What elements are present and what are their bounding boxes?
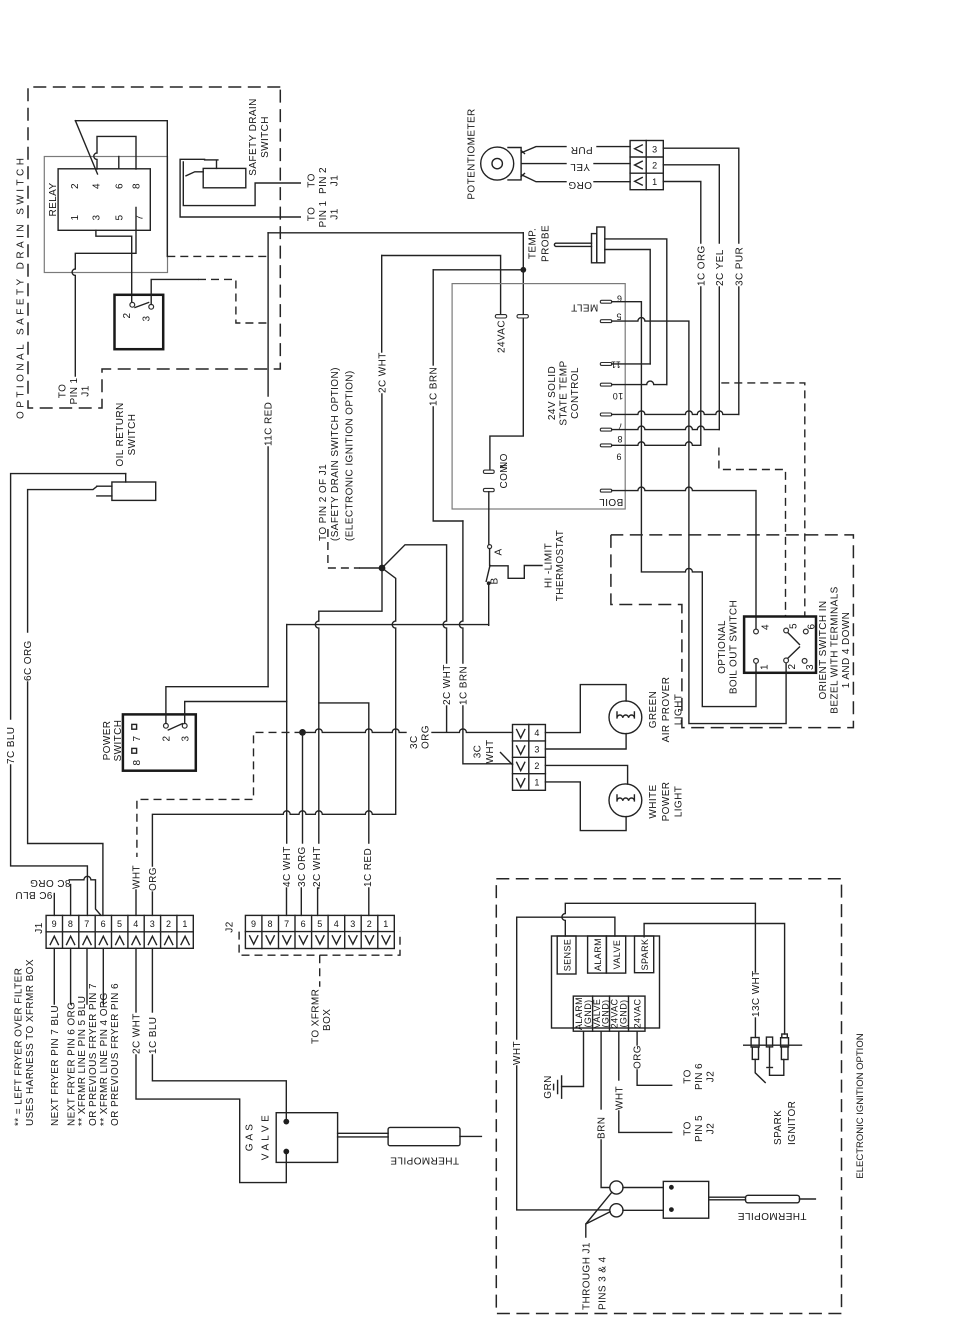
svg-text:6: 6 <box>101 919 106 929</box>
wire 7C BLU <box>11 474 126 719</box>
svg-text:4: 4 <box>534 728 539 738</box>
svg-text:SWITCH: SWITCH <box>127 414 138 456</box>
svg-text:10: 10 <box>612 391 623 401</box>
svg-text:SWITCH: SWITCH <box>260 116 271 158</box>
wire ignitor bottom link <box>770 1060 784 1076</box>
wire pin8 row to 2C YEL <box>612 426 720 429</box>
svg-text:1: 1 <box>70 214 81 220</box>
wire 3C PUR <box>663 148 739 243</box>
svg-text:SWITCH: SWITCH <box>113 720 124 762</box>
gas valve terminal lower <box>283 1149 289 1155</box>
svg-text:SPARK: SPARK <box>773 1110 784 1145</box>
svg-text:1: 1 <box>182 919 187 929</box>
wire J1 pin9 stub <box>53 894 55 916</box>
svg-text:WHT: WHT <box>614 1086 625 1110</box>
wire power switch pin2 to 11C RED <box>166 687 268 724</box>
wire 4C WHT vertical <box>286 625 288 843</box>
svg-text:4: 4 <box>92 183 103 189</box>
wire main bus to hi-limit B <box>287 624 489 626</box>
svg-text:TEMP.: TEMP. <box>527 228 538 259</box>
boil-out pin 3 <box>802 659 807 664</box>
svg-text:COM: COM <box>499 464 510 489</box>
svg-text:3C ORG: 3C ORG <box>297 846 308 887</box>
svg-text:3C PUR: 3C PUR <box>734 247 745 286</box>
svg-text:PIN 1: PIN 1 <box>318 200 329 227</box>
svg-text:ORG: ORG <box>633 1045 644 1069</box>
white power lamp <box>609 784 642 817</box>
svg-text:PINS 3 & 4: PINS 3 & 4 <box>598 1256 609 1310</box>
boil-out switch box <box>744 617 816 673</box>
svg-text:2C WHT: 2C WHT <box>377 352 388 393</box>
svg-text:8: 8 <box>132 759 143 765</box>
svg-text:8: 8 <box>267 919 272 929</box>
power switch terminal 2 <box>164 723 169 728</box>
svg-text:3: 3 <box>805 664 816 670</box>
wire SPARK to ignitor <box>644 924 785 1035</box>
wire dashed TO PIN 2 OF J1 <box>328 529 360 568</box>
temp control pin 8 <box>600 428 612 431</box>
svg-text:OPTIONAL SAFETY DRAIN SWITCH: OPTIONAL SAFETY DRAIN SWITCH <box>16 155 27 419</box>
safety drain switch body <box>203 168 246 187</box>
wire pin10 row <box>612 381 667 385</box>
wire BOIL row to boil-out pin4 <box>612 487 756 629</box>
svg-text:WHT: WHT <box>485 740 496 764</box>
svg-text:9: 9 <box>251 919 256 929</box>
wire light pin4 to green lamp <box>545 685 626 733</box>
wire junction upper branch to light connector pin4 <box>382 545 447 663</box>
svg-text:LIGHT: LIGHT <box>674 786 685 817</box>
boil-out dashed enclosure <box>611 535 854 728</box>
svg-text:(SAFETY DRAIN SWITCH OPTION): (SAFETY DRAIN SWITCH OPTION) <box>330 367 341 541</box>
svg-text:8: 8 <box>68 919 73 929</box>
oil return switch body <box>112 482 156 500</box>
svg-text:3: 3 <box>180 735 191 741</box>
wire 1C BRN vertical <box>432 270 434 365</box>
svg-text:(GND): (GND) <box>619 1000 629 1028</box>
gas valve terminal upper <box>283 1119 289 1125</box>
svg-text:TO PIN 2 OF J1: TO PIN 2 OF J1 <box>318 464 329 541</box>
svg-text:THERMOSTAT: THERMOSTAT <box>555 530 566 601</box>
svg-text:2C WHT: 2C WHT <box>132 1013 143 1054</box>
optional safety drain switch dashed enclosure <box>28 87 280 408</box>
svg-text:2: 2 <box>787 663 798 669</box>
svg-text:7: 7 <box>84 919 89 929</box>
wire pot YEL <box>522 163 566 165</box>
aux switch arm <box>135 303 149 308</box>
wire pot PUR <box>522 147 566 153</box>
svg-text:BRN: BRN <box>597 1117 608 1139</box>
wire 24VAC (ORG) to TO PIN 6 J2 <box>636 1031 638 1045</box>
wire light pin3 to green lamp <box>545 734 626 749</box>
svg-text:WHT: WHT <box>132 865 143 889</box>
svg-text:RELAY: RELAY <box>48 182 59 216</box>
wire pin5 to boil-out pin2 <box>612 318 786 724</box>
wire J1 pin3 to gas valve (1C BLU) <box>151 948 153 1012</box>
thermopile 2 tip <box>800 1198 816 1200</box>
terminal 24VAC left <box>495 315 506 318</box>
svg-text:2: 2 <box>70 183 81 189</box>
wire light pin1 to white lamp <box>545 782 626 831</box>
wire pin7 row to 3C PUR <box>612 411 739 415</box>
svg-text:5: 5 <box>789 623 800 629</box>
svg-text:USES HARNESS TO XFRMR BOX: USES HARNESS TO XFRMR BOX <box>25 959 36 1126</box>
connector J2 body <box>245 915 394 948</box>
module lower terminal strip <box>573 996 645 1031</box>
wire 1C ORG <box>663 182 701 244</box>
boil-out pin 2 <box>784 658 789 663</box>
wire dashed to XFRMR box <box>319 955 321 987</box>
svg-text:PROBE: PROBE <box>541 225 552 262</box>
svg-text:PIN 6: PIN 6 <box>694 1063 705 1090</box>
svg-text:NEXT FRYER PIN 7 BLU: NEXT FRYER PIN 7 BLU <box>50 1005 61 1126</box>
svg-text:2: 2 <box>122 312 133 318</box>
svg-text:THERMOPILE: THERMOPILE <box>737 1210 806 1221</box>
svg-text:ORG: ORG <box>421 725 432 749</box>
svg-text:5: 5 <box>616 312 621 322</box>
wire B to bus <box>488 585 490 625</box>
svg-text:2C YEL: 2C YEL <box>715 249 726 286</box>
svg-text:6: 6 <box>114 183 125 189</box>
svg-text:J2: J2 <box>706 1123 717 1134</box>
wire J1 pin8 stub <box>70 885 72 916</box>
wire relay pin7 lead <box>72 208 136 377</box>
wire 11C RED vertical <box>267 233 269 396</box>
svg-text:MELT: MELT <box>571 302 599 313</box>
svg-text:TO: TO <box>683 1121 694 1136</box>
svg-text:3: 3 <box>92 214 103 220</box>
svg-text:LIGHT: LIGHT <box>674 694 685 725</box>
wire 2C YEL <box>663 165 719 243</box>
svg-text:3: 3 <box>534 745 539 755</box>
svg-text:5: 5 <box>317 919 322 929</box>
svg-text:B: B <box>490 577 501 584</box>
gas valve box <box>276 1113 337 1163</box>
wire safety switch to TO PIN 2 <box>183 162 300 206</box>
J2 dashed shroud <box>239 932 400 956</box>
svg-text:TO XFRMR: TO XFRMR <box>311 989 322 1044</box>
svg-text:PIN 2: PIN 2 <box>318 167 329 194</box>
wire 3C ORG junction to light connector pin4 <box>303 729 407 733</box>
temp control pin 7 <box>600 413 612 416</box>
wire ALARM GND to ground <box>562 1031 584 1086</box>
svg-text:1C ORG: 1C ORG <box>696 245 707 286</box>
svg-text:TO: TO <box>307 173 318 188</box>
wire J1 pin4 to gas valve (2C WHT) <box>135 948 137 1012</box>
svg-text:A: A <box>494 548 505 555</box>
svg-text:G A S: G A S <box>245 1124 256 1152</box>
svg-text:7C BLU: 7C BLU <box>6 727 17 764</box>
thermopile junction box <box>663 1181 708 1218</box>
svg-text:3: 3 <box>652 145 657 155</box>
svg-text:J2: J2 <box>706 1071 717 1082</box>
svg-text:GRN: GRN <box>543 1075 554 1098</box>
svg-text:CONTROL: CONTROL <box>570 367 581 419</box>
svg-text:1: 1 <box>383 919 388 929</box>
wire 1C BRN branch <box>433 269 523 271</box>
module terminal VALVE <box>606 936 625 973</box>
wire relay top to dashed corner <box>75 121 167 257</box>
svg-text:SAFETY DRAIN: SAFETY DRAIN <box>248 98 259 175</box>
svg-text:TO: TO <box>58 384 69 399</box>
terminal NO <box>483 470 494 473</box>
module terminal SENSE <box>557 936 576 974</box>
wire 24VAC GND (WHT) to TO PIN 5 J2 <box>618 1031 620 1080</box>
svg-text:6C ORG: 6C ORG <box>23 640 34 681</box>
wire VALVE GND (BRN) to connector circle <box>600 1031 602 1109</box>
wire aux switch pin3 to 11C RED (dashed link) <box>151 279 198 304</box>
electronic ignition option dashed enclosure <box>496 879 841 1314</box>
hi-limit terminal B <box>487 581 491 585</box>
terminal 24VAC right <box>517 315 528 318</box>
spark ignitor center electrode <box>766 1037 772 1047</box>
wire pin9 row to 1C ORG <box>612 442 701 445</box>
light connector body <box>513 725 546 791</box>
svg-text:BOIL OUT SWITCH: BOIL OUT SWITCH <box>729 600 740 694</box>
thermopile tip <box>460 1135 481 1137</box>
wire 6C ORG <box>28 487 97 633</box>
wire relay arm diagonal <box>75 121 97 174</box>
svg-text:2C WHT: 2C WHT <box>312 846 323 887</box>
safety drain switch lever <box>186 172 203 176</box>
aux switch pin 2 terminal <box>130 302 135 307</box>
junction box dots <box>669 1185 674 1190</box>
connector J1 body <box>46 915 193 948</box>
boil-out arms <box>788 633 799 658</box>
wire circles to thermopile box <box>623 1188 663 1211</box>
svg-text:3C: 3C <box>473 745 484 759</box>
svg-text:1: 1 <box>760 664 771 670</box>
svg-text:VALVE: VALVE <box>612 940 622 970</box>
temp control pin 9 <box>600 444 612 447</box>
svg-text:9C BLU: 9C BLU <box>15 889 52 900</box>
svg-text:OPTIONAL: OPTIONAL <box>717 620 728 674</box>
svg-text:OR PREVIOUS FRYER PIN 6: OR PREVIOUS FRYER PIN 6 <box>110 983 121 1126</box>
svg-text:PIN 5: PIN 5 <box>694 1115 705 1142</box>
connector P1 (pot) body <box>630 141 663 190</box>
boil-out pin 4 <box>754 629 759 634</box>
leader spark ignitor <box>755 1060 765 1083</box>
wire 24VAC right drop <box>490 233 523 470</box>
dashed stub to boil-out pin5 <box>719 448 786 617</box>
svg-text:6: 6 <box>807 623 818 629</box>
potentiometer body <box>481 147 514 180</box>
temp probe flange <box>592 234 597 263</box>
svg-text:1: 1 <box>534 777 539 787</box>
svg-text:4: 4 <box>133 919 138 929</box>
svg-text:BEZEL WITH TERMINALS: BEZEL WITH TERMINALS <box>830 586 841 713</box>
module terminal SPARK <box>635 936 654 973</box>
power switch arm <box>168 724 182 730</box>
leader THROUGH J1 PINS 3 and 4 <box>586 1192 612 1237</box>
wire 8C ORG hook over 7C BLU <box>69 876 101 915</box>
svg-text:24VAC: 24VAC <box>497 320 508 353</box>
relay coil outline <box>44 157 167 273</box>
svg-text:J1: J1 <box>81 385 92 396</box>
svg-text:TO: TO <box>307 207 318 222</box>
wire temp probe upper to pin10 <box>605 239 667 385</box>
svg-text:OIL RETURN: OIL RETURN <box>115 402 126 466</box>
J2 arrow contacts <box>250 936 391 944</box>
svg-text:WHITE: WHITE <box>648 784 659 818</box>
wires J1 pins 9-6 to notes <box>54 948 103 1004</box>
svg-text:BOX: BOX <box>322 1009 333 1031</box>
svg-text:BOIL: BOIL <box>599 496 623 507</box>
svg-text:PUR: PUR <box>570 144 592 155</box>
svg-text:POTENTIOMETER: POTENTIOMETER <box>466 108 477 199</box>
svg-text:** = LEFT FRYER OVER FILTER: ** = LEFT FRYER OVER FILTER <box>14 968 25 1126</box>
potentiometer bushing <box>508 148 521 180</box>
svg-text:NEXT FRYER PIN 6 ORG: NEXT FRYER PIN 6 ORG <box>66 1002 77 1126</box>
svg-text:6: 6 <box>301 919 306 929</box>
wire pin11 row <box>612 363 650 365</box>
svg-text:4: 4 <box>761 624 772 630</box>
hi-limit capillary <box>490 566 542 579</box>
wire temp probe lower to pin11 <box>605 250 650 364</box>
svg-text:POWER: POWER <box>661 782 672 822</box>
svg-text:11C RED: 11C RED <box>264 402 275 446</box>
thermopile body <box>388 1127 460 1145</box>
dashed stub to boil-out pin6 <box>721 383 805 617</box>
wire dashed relay drop to 11C RED <box>167 255 268 257</box>
ground symbol GRN <box>554 1076 562 1098</box>
svg-text:2: 2 <box>652 161 657 171</box>
svg-text:2: 2 <box>162 735 173 741</box>
svg-text:J2: J2 <box>225 921 236 932</box>
oil return switch side terminal upper <box>97 485 112 487</box>
wire thermopile 2 leads <box>709 1197 746 1200</box>
boil-out pin 1 <box>754 659 759 664</box>
power switch terminal square 8 <box>132 748 137 753</box>
wire relay pin8 jumper to pin4 <box>94 136 136 169</box>
wire 1C BRN mid to light connector pin2 <box>459 521 463 663</box>
ignition module box <box>552 936 660 1028</box>
svg-text:2: 2 <box>166 919 171 929</box>
svg-text:AIR PROVER: AIR PROVER <box>661 677 672 743</box>
wire relay pin6 to coil top <box>118 157 120 169</box>
oil return switch side terminal lower <box>97 495 112 497</box>
svg-text:** XFRMR LINE PIN 4 ORG: ** XFRMR LINE PIN 4 ORG <box>99 992 110 1126</box>
bulkhead connector circle upper <box>610 1181 623 1194</box>
wire power switch pin3 to 4C WHT <box>185 702 287 724</box>
svg-text:YEL: YEL <box>570 161 590 172</box>
wire SENSE to 13C WHT <box>562 903 756 972</box>
svg-text:1 AND 4 DOWN: 1 AND 4 DOWN <box>841 612 852 688</box>
svg-text:HI -LIMIT: HI -LIMIT <box>544 543 555 588</box>
svg-text:ORIENT SWITCH IN: ORIENT SWITCH IN <box>818 601 829 700</box>
svg-text:3C: 3C <box>409 735 420 749</box>
wire 2C WHT branch from feed <box>382 256 501 316</box>
svg-text:2: 2 <box>367 919 372 929</box>
svg-text:IGNITOR: IGNITOR <box>787 1101 798 1145</box>
svg-text:J1: J1 <box>330 208 341 219</box>
svg-text:7: 7 <box>284 919 289 929</box>
J1 arrow contacts <box>50 936 189 944</box>
svg-text:THROUGH J1: THROUGH J1 <box>582 1242 593 1310</box>
svg-text:GREEN: GREEN <box>648 691 659 729</box>
temp control pin BOIL <box>600 489 612 492</box>
svg-text:1: 1 <box>652 177 657 187</box>
svg-text:ORG: ORG <box>568 179 592 190</box>
svg-text:(ELECTRONIC IGNITION OPTION): (ELECTRONIC IGNITION OPTION) <box>345 370 356 541</box>
svg-text:** XFRMR LINE PIN 5 BLU: ** XFRMR LINE PIN 5 BLU <box>77 996 88 1126</box>
svg-text:THERMOPILE: THERMOPILE <box>390 1155 459 1166</box>
svg-text:1C BRN: 1C BRN <box>429 367 440 406</box>
wire dashed from junction to J1 pin4 (WHT) <box>137 732 303 857</box>
temp control pin 5 <box>600 320 612 323</box>
svg-text:SPARK: SPARK <box>640 939 650 971</box>
svg-text:OR PREVIOUS FRYER PIN 7: OR PREVIOUS FRYER PIN 7 <box>88 983 99 1126</box>
svg-text:8C ORG: 8C ORG <box>30 877 71 888</box>
green air prover lamp <box>609 701 642 734</box>
svg-text:STATE TEMP: STATE TEMP <box>559 360 570 425</box>
node junction 24VAC <box>520 267 526 273</box>
hi-limit terminal A <box>488 545 492 549</box>
aux switch S2 box <box>115 295 164 349</box>
svg-text:ELECTRONIC IGNITION OPTION: ELECTRONIC IGNITION OPTION <box>855 1033 866 1178</box>
svg-text:13C WHT: 13C WHT <box>751 970 762 1017</box>
svg-text:24V SOLID: 24V SOLID <box>547 366 558 420</box>
wire junction lower branch (ORG to J1 pin3) <box>152 568 395 866</box>
boil-out pin 6 <box>803 629 808 634</box>
svg-text:4C WHT: 4C WHT <box>282 846 293 887</box>
svg-text:9: 9 <box>52 919 57 929</box>
temp probe stem <box>554 243 591 246</box>
svg-text:PIN 1: PIN 1 <box>69 377 80 404</box>
wire 2C WHT jog to 1C RED and J2 pin5 <box>315 568 382 843</box>
wire MELT to boil-out pin1 <box>612 302 756 707</box>
svg-text:1C RED: 1C RED <box>363 848 374 887</box>
svg-text:WHT: WHT <box>512 1041 523 1065</box>
bulkhead connector circle lower <box>610 1204 623 1217</box>
wire COM to hi-limit A <box>488 492 490 545</box>
aux switch pin 3 terminal <box>149 304 154 309</box>
hi-limit arm <box>486 549 490 582</box>
spark ignitor mount line <box>744 1044 802 1046</box>
svg-text:ALARM: ALARM <box>593 938 603 971</box>
svg-text:V A L V E: V A L V E <box>261 1115 272 1160</box>
power switch box <box>123 714 196 770</box>
wire top feed 11C RED to 24VAC right terminal <box>268 232 523 234</box>
svg-text:7: 7 <box>132 735 143 741</box>
svg-text:2: 2 <box>534 761 539 771</box>
oil return switch top terminal <box>125 474 127 482</box>
wire safety switch to TO PIN 1 <box>180 159 300 217</box>
safety drain switch actuator bar <box>205 159 218 161</box>
spark ignitor right electrode <box>782 1034 788 1038</box>
svg-text:J1: J1 <box>34 922 45 933</box>
svg-text:5: 5 <box>117 919 122 929</box>
thermopile 2 body <box>746 1195 800 1203</box>
svg-text:SENSE: SENSE <box>563 939 573 972</box>
svg-text:3: 3 <box>350 919 355 929</box>
svg-text:3: 3 <box>150 919 155 929</box>
svg-text:3: 3 <box>142 315 153 321</box>
node 3C ORG junction <box>299 729 306 736</box>
module terminal ALARM <box>588 936 607 973</box>
terminal COM <box>483 488 494 491</box>
svg-text:9: 9 <box>616 452 621 462</box>
wire 3C ORG junction to J2 pin6 <box>302 732 304 843</box>
P1 arrows <box>635 145 643 185</box>
wire relay pin3 to aux switch pin2 <box>96 230 132 302</box>
temp control pin 11 <box>600 363 612 366</box>
temp control box <box>452 284 625 509</box>
power switch terminal 3 <box>182 723 187 728</box>
svg-text:8: 8 <box>617 434 622 444</box>
svg-text:8: 8 <box>132 183 143 189</box>
wire 2C WHT vertical to junction <box>381 256 383 353</box>
svg-text:POWER: POWER <box>102 721 113 761</box>
